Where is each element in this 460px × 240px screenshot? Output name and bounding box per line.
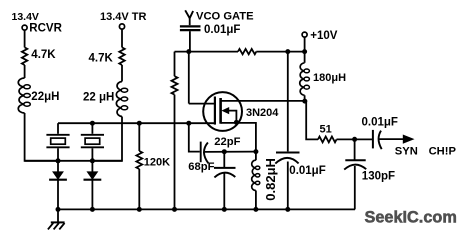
node source-22pF junction xyxy=(253,149,258,154)
label 22uH (L2) xyxy=(83,91,114,103)
diode D2 xyxy=(84,161,102,210)
label RCVR xyxy=(29,23,62,35)
label 0.01uF (output) xyxy=(362,116,398,128)
watermark SeekIC.com xyxy=(365,209,457,227)
wire node to output cap xyxy=(355,138,373,140)
ground xyxy=(48,209,65,229)
inductor L1 22uH xyxy=(18,78,30,113)
capacitor 22pF xyxy=(201,142,209,164)
label 0.01uF (VCO gate) xyxy=(204,24,240,36)
svg-text:120K: 120K xyxy=(144,157,170,169)
crystal Y2 xyxy=(81,123,104,161)
Q1 gate bar xyxy=(214,97,216,125)
Q1 channel bar xyxy=(219,98,222,124)
label CHIP xyxy=(429,145,457,157)
svg-text:130pF: 130pF xyxy=(362,170,395,182)
transistor Q1 3N204 body xyxy=(203,92,242,131)
resistor 51 xyxy=(318,137,337,143)
terminal +10V xyxy=(302,32,307,37)
wire L2 through gate bus down xyxy=(92,117,122,161)
svg-text:SeekIC.com: SeekIC.com xyxy=(365,209,457,227)
wire 130pF to rail xyxy=(354,166,356,209)
node bypass top xyxy=(285,49,290,54)
capacitor 130pF xyxy=(344,160,366,169)
wire gate-1 bus xyxy=(58,122,215,124)
inductor L3 180uH xyxy=(300,63,310,96)
node Y2 bottom xyxy=(90,158,95,163)
resistor 120K xyxy=(136,151,142,169)
wire VCO node to G2 xyxy=(188,52,190,104)
wire G1 to 22pF xyxy=(189,123,200,151)
wire bias to rail xyxy=(174,95,176,210)
svg-text:22 μH: 22 μH xyxy=(83,91,114,103)
label 3N204 xyxy=(246,107,279,119)
svg-text:0.01μF: 0.01μF xyxy=(204,24,240,36)
wire +10V to rail xyxy=(304,37,306,51)
svg-text:13.4V TR: 13.4V TR xyxy=(100,11,147,23)
wire ground rail xyxy=(58,208,355,210)
svg-text:22pF: 22pF xyxy=(214,136,240,148)
capacitor 0.01uF (bypass) xyxy=(275,153,299,164)
wire output arrow xyxy=(379,135,415,144)
svg-text:51: 51 xyxy=(320,124,332,136)
diode D1 xyxy=(49,161,67,210)
wire L3 to drain node xyxy=(304,95,306,101)
resistor R1 4.7K (RCVR) xyxy=(22,47,27,65)
wire R2 to L2 xyxy=(121,65,123,82)
wire 51 to output node xyxy=(337,138,355,140)
label 120K xyxy=(144,157,170,169)
label 13.4V TR xyxy=(100,11,147,23)
wire terminal to R2 xyxy=(121,29,123,47)
svg-text:0.01μF: 0.01μF xyxy=(289,165,325,177)
wire crystal bottom bus xyxy=(25,160,122,162)
label SYN xyxy=(395,145,418,157)
label 4.7K (R2) xyxy=(89,53,114,65)
svg-text:+10V: +10V xyxy=(310,30,338,42)
svg-text:0.82μH: 0.82μH xyxy=(263,158,278,201)
node 68pF bottom xyxy=(222,207,227,212)
node bias-rail xyxy=(172,207,177,212)
label 4.7K (R1) xyxy=(31,49,56,61)
capacitor 0.01uF (output) xyxy=(373,130,382,149)
svg-text:13.4V: 13.4V xyxy=(12,11,39,23)
capacitor 0.01uF (VCO gate) xyxy=(180,26,201,51)
svg-text:SYN: SYN xyxy=(395,145,418,157)
inductor L2 22uH xyxy=(116,82,127,117)
node Y1 bottom xyxy=(56,158,61,163)
wire R1 to L1 xyxy=(24,65,26,78)
label 22pF xyxy=(214,136,240,148)
svg-text:CH!P: CH!P xyxy=(429,145,457,157)
label 13.4V (RCVR supply) xyxy=(12,11,39,23)
node bypass-rail xyxy=(285,207,290,212)
wire bypass top lead xyxy=(287,52,289,152)
node VCO-cap junction xyxy=(186,49,191,54)
node drain junction xyxy=(302,99,307,104)
svg-text:4.7K: 4.7K xyxy=(31,49,56,61)
input arrow VCO GATE xyxy=(185,10,193,25)
node 68pF top xyxy=(222,149,227,154)
node Q1 source-substrate xyxy=(234,120,239,125)
svg-text:RCVR: RCVR xyxy=(29,23,62,35)
node Y2 top xyxy=(90,121,95,126)
node 120K top xyxy=(137,121,142,126)
label 180uH xyxy=(313,72,346,84)
terminal 13.4V TR xyxy=(119,24,124,29)
wire junction to 68pF xyxy=(223,152,225,168)
node D1-rail xyxy=(56,207,61,212)
wire L4 to rail xyxy=(255,191,257,210)
svg-text:4.7K: 4.7K xyxy=(89,53,114,65)
label 68pF xyxy=(188,161,214,173)
wire top-rail left end down xyxy=(174,52,176,77)
wire junction to 130pF xyxy=(354,139,356,160)
wire L1 down to crystal bus xyxy=(25,113,58,161)
resistor R2 4.7K (TR) xyxy=(119,47,124,65)
label 0.01uF (bypass) xyxy=(289,165,325,177)
wire top rail xyxy=(175,51,305,53)
svg-text:68pF: 68pF xyxy=(188,161,214,173)
svg-text:0.01μF: 0.01μF xyxy=(362,116,398,128)
node 120K bottom xyxy=(137,207,142,212)
label VCO GATE xyxy=(196,10,254,22)
node L4-rail xyxy=(253,207,258,212)
capacitor 68pF xyxy=(214,168,236,178)
label 130pF xyxy=(362,170,395,182)
wire bypass to rail xyxy=(287,162,289,210)
wire 120K to rail xyxy=(138,169,140,209)
resistor top-rail xyxy=(238,49,256,54)
node G1 junction xyxy=(186,121,191,126)
terminal 13.4V RCVR xyxy=(22,25,27,30)
label 0.82uH xyxy=(263,158,278,201)
wire drain xyxy=(221,100,305,102)
node D2-rail xyxy=(90,207,95,212)
label 22uH (L1) xyxy=(31,91,59,103)
label +10V xyxy=(310,30,338,42)
wire source lead xyxy=(221,123,256,160)
svg-text:180μH: 180μH xyxy=(313,72,346,84)
crystal Y1 xyxy=(46,123,69,161)
node output junction xyxy=(352,137,357,142)
label 51 xyxy=(320,124,332,136)
node +10V junction xyxy=(302,49,307,54)
wire 22pF to source column xyxy=(205,151,256,153)
wire 68pF to rail xyxy=(223,174,225,210)
wire bus to 120K xyxy=(138,123,140,151)
svg-text:VCO GATE: VCO GATE xyxy=(196,10,254,22)
wire G2 lead xyxy=(189,103,215,105)
Q1 substrate arrow xyxy=(221,107,236,122)
resistor bias xyxy=(172,76,178,94)
wire terminal to R1 xyxy=(24,30,26,47)
svg-text:22μH: 22μH xyxy=(31,91,59,103)
inductor L4 0.82uH xyxy=(252,160,260,190)
wire rail to L3 xyxy=(304,52,306,63)
svg-text:3N204: 3N204 xyxy=(246,107,279,119)
wire drain node down xyxy=(305,101,318,139)
